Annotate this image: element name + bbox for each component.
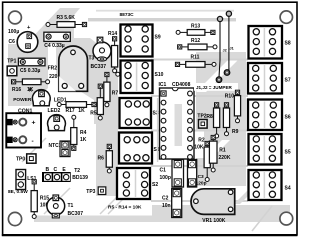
switch S7 — [248, 63, 282, 94]
capacitor C5 — [18, 58, 45, 66]
svg-text:K: K — [29, 87, 33, 93]
svg-text:FR2: FR2 — [48, 66, 58, 72]
capacitor C1 — [172, 160, 184, 188]
svg-text:R4: R4 — [80, 130, 87, 136]
mounting hole bottom-left — [8, 212, 21, 225]
switch S2 — [117, 168, 150, 199]
svg-text:120p: 120p — [196, 181, 207, 187]
svg-text:+: + — [27, 25, 31, 31]
resistor R1 — [209, 135, 217, 172]
resistor R11 — [175, 62, 216, 68]
board outline bottom edge — [2, 234, 298, 236]
svg-text:8873C: 8873C — [120, 12, 135, 18]
resistor R4 — [71, 115, 77, 150]
trace top horizontal — [88, 18, 236, 21]
resistor R14 — [112, 37, 118, 73]
copper pour center — [56, 38, 118, 124]
resistor R16 — [12, 79, 50, 85]
svg-text:TP2: TP2 — [197, 114, 206, 120]
svg-text:S4: S4 — [285, 186, 291, 192]
pad left of S10 — [116, 72, 120, 76]
svg-text:BC307: BC307 — [68, 211, 84, 217]
resistor R9 — [223, 103, 229, 136]
resistor R6 — [106, 144, 112, 173]
svg-text:BD139: BD139 — [72, 175, 88, 181]
resistor R15 — [31, 180, 37, 219]
svg-text:R9: R9 — [232, 129, 239, 135]
svg-text:R16: R16 — [12, 87, 21, 93]
svg-text:R2: R2 — [198, 137, 205, 143]
resistor R2 — [204, 141, 210, 181]
svg-text:R13: R13 — [191, 23, 200, 29]
svg-text:S5: S5 — [285, 150, 291, 156]
trace left of IC1 — [157, 98, 159, 162]
resistor R5 — [97, 84, 103, 120]
switch S5 — [249, 134, 282, 165]
resistor R7 — [104, 72, 110, 106]
resistor R12 — [178, 44, 217, 50]
jumper wire J2 — [219, 21, 220, 78]
testpoint TP3 — [98, 187, 106, 195]
mounting hole top-left — [9, 11, 22, 24]
svg-text:CD4008: CD4008 — [172, 82, 191, 88]
svg-text:C3: C3 — [198, 174, 204, 180]
svg-text:J2: J2 — [223, 49, 227, 53]
svg-text:R14: R14 — [108, 31, 117, 37]
svg-text:VR1 100K: VR1 100K — [202, 218, 225, 224]
switch S6 — [248, 100, 282, 131]
svg-text:C5 0.33µ: C5 0.33µ — [20, 68, 41, 74]
svg-text:100p: 100p — [160, 175, 171, 181]
svg-text:TP3: TP3 — [86, 189, 95, 195]
capacitor C4 — [44, 32, 70, 41]
svg-text:B: B — [45, 167, 49, 173]
svg-text:S9: S9 — [155, 35, 161, 41]
capacitor C6 — [17, 32, 38, 53]
testpoint TP2 — [199, 120, 208, 129]
trace top horizontal upper — [96, 10, 234, 12]
capacitor C2 — [172, 189, 182, 218]
svg-text:C6: C6 — [9, 39, 16, 45]
svg-text:220: 220 — [49, 74, 58, 80]
svg-text:R5 - R14 = 10K: R5 - R14 = 10K — [108, 204, 142, 210]
svg-text:R1: R1 — [219, 147, 226, 153]
thermistor NTC1 — [60, 141, 70, 157]
svg-text:R3 5.6K: R3 5.6K — [57, 15, 76, 21]
testpoint TP1 — [7, 66, 17, 76]
svg-text:-: - — [32, 138, 34, 145]
trace diagonals bottom-left — [22, 138, 46, 162]
svg-text:1K: 1K — [80, 137, 87, 143]
switch S8 — [249, 26, 283, 59]
switch S3 — [120, 98, 152, 128]
svg-text:POWER: POWER — [13, 97, 32, 103]
svg-text:S7: S7 — [285, 78, 291, 84]
transistor T3 — [93, 37, 111, 61]
pad J1 top — [226, 11, 231, 16]
trace white band — [194, 83, 238, 91]
svg-text:TP0: TP0 — [16, 157, 25, 163]
switch S9 — [121, 25, 153, 57]
svg-text:J1: J1 — [230, 47, 234, 51]
switch S1 — [119, 133, 152, 164]
svg-text:220K: 220K — [219, 155, 231, 161]
loudspeaker terminal LS1 — [16, 170, 26, 190]
svg-text:8E, 0.5W: 8E, 0.5W — [8, 189, 28, 195]
svg-text:C: C — [53, 167, 57, 173]
mounting hole bottom-right — [280, 212, 293, 225]
svg-text:J1,J2 = JUMPER: J1,J2 = JUMPER — [196, 85, 233, 90]
svg-text:S8: S8 — [285, 41, 291, 47]
svg-text:R10: R10 — [225, 93, 234, 99]
svg-text:+: + — [32, 120, 36, 127]
resistor R10 — [234, 90, 240, 123]
jumper wire J1 — [227, 16, 229, 72]
copper pour bottom band — [34, 216, 290, 223]
svg-text:R5: R5 — [90, 111, 97, 117]
heatsink-mounted device (8873C outline) — [59, 46, 88, 91]
resistor R13 — [176, 30, 215, 36]
potentiometer VR1 — [191, 189, 235, 215]
connector CON1 — [6, 113, 41, 147]
svg-text:TP1: TP1 — [7, 59, 16, 65]
transistor T2 — [42, 172, 71, 182]
testpoint TP0 — [27, 154, 36, 163]
resistor R8 — [214, 103, 220, 138]
svg-text:R12: R12 — [191, 38, 200, 44]
jumper pad J2 bottom — [216, 77, 222, 83]
trace rows center-right — [151, 59, 248, 61]
svg-text:R6: R6 — [98, 156, 105, 162]
copper pour right-center — [196, 52, 246, 186]
trace diagonal bottom-right — [252, 206, 272, 231]
copper pour top-left — [26, 8, 80, 44]
LED LED1 — [32, 90, 50, 106]
svg-text:10K: 10K — [194, 144, 204, 150]
resistor R17 — [57, 102, 96, 108]
svg-text:100µ: 100µ — [8, 29, 19, 35]
LED LED2 — [48, 115, 66, 131]
svg-text:S6: S6 — [285, 115, 291, 121]
svg-text:C4 0.33µ: C4 0.33µ — [44, 43, 65, 49]
svg-text:LED2: LED2 — [48, 108, 61, 114]
resistor R3 — [46, 22, 87, 28]
svg-text:T2: T2 — [74, 168, 80, 174]
svg-text:C1: C1 — [160, 168, 167, 174]
switch S10 — [121, 61, 153, 94]
mounting hole top-right — [280, 11, 292, 23]
svg-text:T3: T3 — [89, 56, 95, 62]
svg-text:R7: R7 — [112, 91, 119, 97]
transistor T1 — [47, 195, 65, 218]
svg-text:C2: C2 — [162, 196, 169, 202]
svg-text:S10: S10 — [155, 72, 164, 78]
svg-text:BC337: BC337 — [91, 64, 107, 70]
svg-text:T1: T1 — [68, 203, 74, 209]
svg-text:R11: R11 — [191, 55, 200, 61]
jumper pad J1 bottom — [224, 70, 230, 76]
svg-text:IC1: IC1 — [159, 82, 167, 88]
capacitor C3 — [188, 160, 197, 188]
svg-text:1K: 1K — [78, 108, 85, 114]
svg-text:S2: S2 — [152, 182, 158, 188]
IC IC1 CD4008 — [160, 88, 195, 159]
svg-text:R17: R17 — [66, 108, 75, 114]
pad J2 top — [217, 16, 222, 21]
svg-text:10n: 10n — [162, 203, 171, 209]
switch S4 — [249, 170, 282, 200]
